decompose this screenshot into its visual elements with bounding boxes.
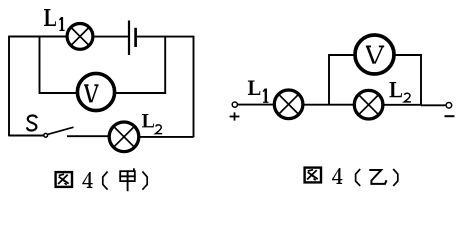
caption 图4(乙) : character 图 [305, 168, 321, 183]
caption 图4(乙) : ） [393, 169, 398, 186]
label L2 (right circuit) [390, 82, 411, 102]
caption 图4(乙) : digit 4 [332, 168, 342, 184]
letter V of right voltmeter [366, 46, 384, 63]
wire: bottom rail right segment [139, 136, 194, 138]
lamp L1 (right circuit) [274, 90, 303, 119]
wire: parallel section top-right rail and right vertical [394, 55, 421, 105]
wire: parallel section to right terminal [421, 104, 446, 106]
caption 图4(乙) : （ [356, 169, 361, 186]
switch S pivot [44, 133, 48, 137]
wire: lamp L1 to parallel section [303, 104, 353, 106]
wire: parallel section left vertical and top-left rail [329, 55, 355, 105]
label L1 (left circuit) [44, 9, 65, 31]
wire: from + terminal to lamp L1 [238, 104, 274, 106]
label S [27, 115, 37, 130]
wire: bottom rail left segment [9, 135, 44, 137]
lamp L2 (left circuit) [109, 122, 139, 152]
terminal − (right binding post) [446, 103, 452, 109]
caption 图4(甲) : （ [103, 172, 108, 190]
plus sign [230, 112, 240, 120]
caption 图4(甲) : character 图 [56, 172, 72, 187]
terminal + (left binding post) [232, 102, 237, 107]
wire: right vertical of outer loop [193, 36, 195, 138]
switch S blade [48, 127, 74, 134]
wire: lamp L2 right side to parallel section right vertical [383, 104, 422, 106]
wire: top rail between L1 and battery [93, 36, 130, 38]
battery cell [129, 21, 136, 56]
caption 图4(甲) : character 甲 [119, 168, 135, 191]
letter V of left voltmeter [84, 85, 98, 102]
caption 图4(乙) : character 乙 [369, 170, 386, 184]
wire: top rail left segment [9, 36, 68, 38]
lamp L1 (left circuit) [67, 24, 93, 50]
lamp L2 (right circuit) [354, 90, 383, 119]
voltmeter U2 (right circuit) [355, 35, 394, 74]
minus sign [445, 115, 455, 117]
wire: top rail right segment [137, 36, 194, 38]
wire: left vertical of outer loop [8, 36, 10, 137]
caption 图4(甲) : digit 4 [82, 172, 92, 188]
wire: voltmeter branch left drop [40, 36, 78, 93]
label L2 (left circuit) [142, 114, 162, 134]
wire: bottom rail middle segment [67, 135, 110, 137]
wire: voltmeter branch right run [115, 36, 166, 93]
label L1 (right circuit) [248, 81, 269, 103]
voltmeter U1 (left circuit) [77, 73, 114, 110]
caption 图4(甲) : ） [142, 172, 147, 190]
